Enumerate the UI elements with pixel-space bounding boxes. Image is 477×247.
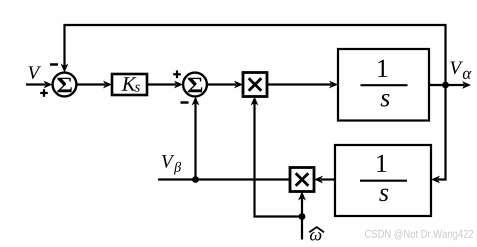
junction dot on omega-hat line — [299, 213, 306, 220]
integrator block 1/s (top) — [338, 49, 429, 121]
node V_beta (label) — [162, 155, 181, 174]
gain block Ks — [112, 74, 147, 95]
plus sign at S1 left input — [40, 89, 48, 97]
wire: integrator 1 output to node V_alpha — [429, 81, 471, 89]
multiplier M2 (times box) — [290, 168, 314, 192]
minus sign at S1 top feedback input — [50, 63, 58, 66]
junction dot on V_beta line — [192, 176, 199, 183]
summing junction S1 — [53, 73, 77, 97]
integrator block 1/s (bottom) — [335, 145, 431, 216]
wire: omega-hat branch left and up into M1 bottom — [251, 97, 302, 217]
wire: omega-hat up into M2 bottom — [298, 192, 306, 240]
junction dot at V_alpha — [442, 82, 449, 89]
wire: integrator 2 output into multiplier M2 right side — [314, 176, 335, 184]
wire: V_alpha junction down to integrator 2 input — [431, 85, 446, 183]
node V (input label) — [29, 66, 41, 79]
wire: Ks to summer S2 — [147, 81, 183, 89]
node omega-hat (label) — [309, 227, 324, 240]
wire: M2 output left to V_beta node — [158, 178, 290, 180]
wire: V input arrow into summer S1 — [26, 81, 53, 89]
wire: S2 to multiplier M1 — [207, 81, 243, 89]
watermark — [365, 229, 473, 240]
wire: M1 to integrator 1 — [267, 81, 338, 89]
wire: V_beta junction up to S2 minus input — [192, 97, 200, 180]
wire: S1 to gain block Ks — [76, 81, 112, 89]
plus sign at S2 left input — [173, 71, 181, 79]
minus sign at S2 bottom input — [181, 101, 189, 104]
node V_alpha (output label) — [450, 61, 471, 79]
multiplier M1 (times box) — [243, 73, 267, 97]
feedback wire: V_alpha junction up, across top, down into S1 — [61, 25, 446, 85]
summing junction S2 — [183, 73, 207, 97]
